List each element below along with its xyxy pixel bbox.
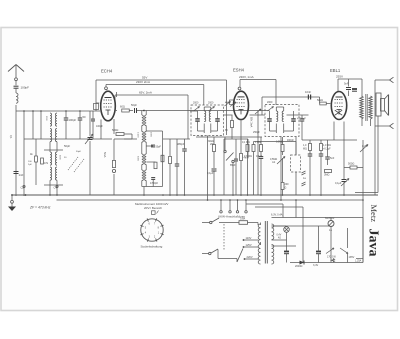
svg-text:EBL1: EBL1: [330, 68, 341, 73]
svg-text:ECH4: ECH4: [101, 69, 113, 74]
svg-text:3MΩ: 3MΩ: [324, 174, 329, 177]
svg-text:MΩ: MΩ: [303, 148, 307, 151]
svg-text:125V: 125V: [246, 243, 252, 247]
svg-text:0,8A: 0,8A: [240, 218, 245, 221]
svg-text:+0,1µF: +0,1µF: [323, 148, 331, 151]
svg-text:380pF: 380pF: [177, 142, 185, 146]
svg-text:5nF: 5nF: [344, 82, 349, 86]
svg-text:2000: 2000: [267, 101, 273, 104]
svg-text:C4: C4: [54, 186, 58, 190]
svg-text:1 MΩ: 1 MΩ: [255, 141, 261, 144]
svg-text:1,25A: 1,25A: [355, 260, 362, 263]
svg-text:10nF: 10nF: [305, 90, 311, 94]
svg-text:50kΩ: 50kΩ: [317, 99, 323, 102]
svg-text:2000: 2000: [150, 132, 152, 138]
svg-text:0,100: 0,100: [137, 132, 139, 138]
svg-text:100pF: 100pF: [69, 118, 77, 122]
svg-text:500Ω: 500Ω: [348, 162, 354, 166]
svg-text:255V: 255V: [336, 74, 343, 78]
svg-text:17Ω 1W: 17Ω 1W: [327, 256, 336, 259]
svg-text:C2: C2: [21, 186, 25, 190]
svg-text:2000Ω: 2000Ω: [295, 265, 303, 268]
svg-text:5nF: 5nF: [330, 157, 335, 160]
svg-text:0,1µF: 0,1µF: [335, 182, 342, 185]
svg-text:0,1µF: 0,1µF: [207, 172, 214, 175]
svg-text:6,3V, 0,4A: 6,3V, 0,4A: [271, 214, 283, 217]
svg-text:50pF: 50pF: [131, 103, 137, 107]
svg-text:5000: 5000: [137, 156, 139, 162]
svg-text:50pF: 50pF: [76, 151, 82, 153]
svg-text:65V, 2mA: 65V, 2mA: [139, 91, 152, 95]
svg-text:2000: 2000: [208, 102, 214, 105]
svg-text:ZF = 473 kHz: ZF = 473 kHz: [29, 206, 51, 210]
svg-text:Ω: Ω: [285, 187, 287, 190]
svg-text:mit: mit: [272, 161, 276, 164]
svg-text:230V, 1mA: 230V, 1mA: [239, 75, 254, 79]
svg-text:1nF: 1nF: [19, 173, 24, 177]
svg-text:20V= Bereich: 20V= Bereich: [144, 206, 162, 210]
svg-text:0,4V: 0,4V: [277, 235, 282, 237]
svg-text:0,25: 0,25: [362, 145, 367, 148]
svg-text:0,1 MΩ: 0,1 MΩ: [242, 141, 250, 144]
svg-text:50pF: 50pF: [64, 144, 70, 148]
svg-text:230V 2mA: 230V 2mA: [136, 80, 150, 84]
svg-text:220V: 220V: [247, 255, 253, 259]
svg-text:Java: Java: [366, 229, 381, 257]
svg-text:0,1: 0,1: [9, 135, 13, 139]
svg-text:0,3 MΩ: 0,3 MΩ: [244, 155, 252, 158]
svg-text:ESH4: ESH4: [233, 68, 245, 73]
svg-text:2000: 2000: [193, 102, 199, 105]
svg-text:110V: 110V: [246, 236, 252, 240]
svg-text:55V: 55V: [142, 75, 147, 79]
svg-text:135V: 135V: [349, 256, 355, 259]
svg-text:2µF: 2µF: [28, 164, 32, 166]
svg-text:100pF: 100pF: [96, 125, 103, 128]
svg-text:2W: 2W: [210, 143, 214, 146]
svg-text:4700pF: 4700pF: [150, 182, 159, 185]
svg-text:Metz: Metz: [369, 205, 379, 223]
svg-text:50pF: 50pF: [156, 146, 162, 149]
svg-text:500Ω: 500Ω: [112, 128, 118, 132]
svg-text:85V, 2mA: 85V, 2mA: [250, 117, 253, 128]
svg-text:4Ω: 4Ω: [278, 237, 281, 239]
svg-text:0,1µF: 0,1µF: [256, 155, 263, 158]
svg-text:100pF: 100pF: [21, 86, 30, 90]
svg-text:5mA: 5mA: [103, 152, 107, 158]
svg-text:Sockelschaltung: Sockelschaltung: [141, 245, 163, 249]
svg-text:50: 50: [83, 115, 86, 119]
svg-text:0,5MΩ: 0,5MΩ: [276, 141, 283, 144]
svg-text:250pF: 250pF: [253, 131, 260, 134]
svg-text:60Ω: 60Ω: [120, 105, 125, 109]
svg-text:3,4V: 3,4V: [313, 264, 318, 267]
